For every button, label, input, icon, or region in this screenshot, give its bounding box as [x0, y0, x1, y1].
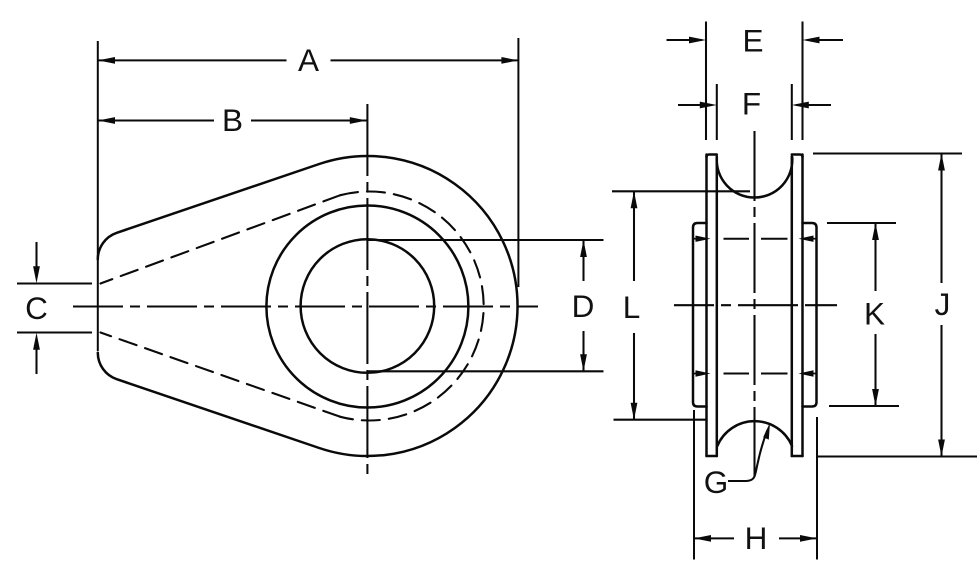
dim J arrowhead top — [938, 154, 945, 171]
dim C extension lines — [17, 282, 92, 284]
dim B arrowhead right — [350, 117, 367, 124]
dim C arrowhead top — [33, 266, 40, 283]
section: right wall inner line — [791, 157, 794, 457]
centerline vertical (section view) — [753, 131, 755, 478]
dim A line — [98, 59, 287, 61]
section: left cheek plate — [693, 223, 707, 407]
centerline vertical (front view) — [366, 104, 368, 476]
dim A arrowhead left — [98, 57, 115, 64]
dim A arrowhead right — [501, 57, 518, 64]
thimble front view: bore circle — [301, 239, 435, 373]
section: left wall bottom cap — [707, 455, 717, 458]
dim E extension lines — [705, 22, 707, 141]
section: groove dome at bottom — [717, 421, 792, 446]
svg-text:C: C — [25, 290, 48, 326]
dim L arrowhead bottom — [631, 403, 638, 420]
hidden bore line upper (section) — [692, 238, 707, 240]
dim D line — [582, 240, 584, 281]
dim H line — [694, 537, 734, 539]
svg-text:L: L — [623, 289, 641, 325]
dim K extension lines — [827, 222, 896, 224]
svg-text:B: B — [222, 102, 243, 138]
section: right wall bottom cap — [792, 455, 803, 458]
dim F arrow lines — [678, 104, 712, 106]
dim K arrowhead bottom — [872, 389, 879, 406]
dim K line — [874, 223, 876, 291]
dim F arrowhead right — [792, 102, 809, 109]
thimble front view: outer teardrop profile — [98, 156, 518, 456]
svg-text:F: F — [742, 86, 761, 122]
dim H extension lines — [693, 410, 695, 560]
svg-text:A: A — [298, 42, 319, 78]
hidden bore arrowhead lower-right — [799, 370, 814, 376]
centerline horizontal (section view) — [674, 304, 837, 306]
dim E arrowhead left — [689, 37, 706, 44]
svg-text:H: H — [745, 520, 768, 556]
dim D arrowhead top — [580, 240, 587, 257]
dim B line — [98, 119, 214, 121]
dim L line — [633, 191, 635, 281]
dim L extension lines — [612, 190, 750, 192]
svg-text:K: K — [864, 296, 885, 332]
dim F extension lines — [716, 84, 718, 140]
section: left wall inner line — [716, 157, 719, 457]
dim C arrow shafts — [35, 242, 37, 270]
section: right wall top cap — [792, 155, 803, 158]
dim J line — [940, 154, 942, 284]
dim B arrowhead left — [98, 117, 115, 124]
dim E arrow lines — [667, 39, 703, 41]
dim G leader line — [728, 430, 768, 481]
hidden bore arrowhead upper-left — [696, 236, 711, 242]
dim A extension line left / small-end face — [97, 41, 99, 351]
hidden groove line: lower dashed tangent — [101, 333, 341, 417]
dim J extension lines — [813, 152, 962, 154]
section: groove arc at top — [717, 157, 793, 198]
section: right cheek plate — [803, 223, 817, 407]
dim C arrowhead bottom — [33, 333, 40, 350]
dim L arrowhead top — [631, 191, 638, 208]
hidden bore arrowhead upper-right — [799, 236, 814, 242]
thimble front view: hidden groove line (dashed teardrop) — [340, 192, 483, 421]
centerline horizontal (front view) — [73, 305, 538, 307]
dim H arrowhead left — [694, 535, 711, 542]
dim D extension lines — [368, 239, 604, 241]
hidden groove line: upper dashed tangent — [101, 195, 341, 283]
dim E arrowhead right — [803, 37, 820, 44]
thimble front view: inner edge circle — [266, 206, 468, 408]
dim J arrowhead bottom — [938, 440, 945, 457]
dim F arrowhead left — [700, 102, 717, 109]
hidden bore arrowhead lower-left — [696, 370, 711, 376]
dim D arrowhead bottom — [580, 354, 587, 371]
dim G leader arrowhead — [763, 423, 770, 440]
section: left wall top cap — [707, 155, 717, 158]
section: right wall outer line — [801, 155, 804, 457]
dim A extension line right — [517, 38, 519, 287]
dim K arrowhead top — [872, 223, 879, 240]
svg-text:G: G — [704, 464, 729, 500]
dim H arrowhead right — [800, 535, 817, 542]
svg-text:J: J — [935, 286, 951, 322]
section: left wall outer line — [705, 155, 708, 457]
svg-text:D: D — [572, 288, 595, 324]
hidden bore line lower (section) — [692, 373, 707, 375]
svg-text:E: E — [742, 23, 763, 59]
